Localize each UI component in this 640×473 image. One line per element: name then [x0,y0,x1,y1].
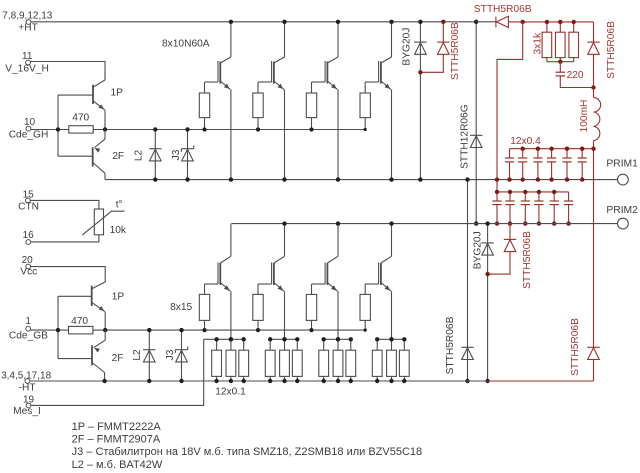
svg-text:8x15: 8x15 [170,302,192,313]
svg-text:10k: 10k [110,225,127,236]
svg-text:2F – FMMT2907A: 2F – FMMT2907A [72,434,161,446]
svg-text:15: 15 [23,190,35,201]
svg-text:PRIM1: PRIM1 [606,158,638,169]
svg-text:2F: 2F [112,353,124,364]
svg-text:1P: 1P [112,292,125,303]
svg-text:J3: J3 [171,149,182,160]
svg-text:1P – FMMT2222A: 1P – FMMT2222A [72,421,162,433]
svg-text:J3 – Стабилитрон на 18V м.б. т: J3 – Стабилитрон на 18V м.б. типа SMZ18,… [72,446,423,458]
svg-text:20: 20 [22,255,34,266]
svg-text:Vcc: Vcc [20,266,37,277]
svg-text:220: 220 [567,70,584,81]
svg-text:V_16V_H: V_16V_H [5,63,49,74]
svg-text:11: 11 [22,51,33,62]
svg-text:100mH: 100mH [579,100,590,133]
svg-text:J3: J3 [165,349,176,360]
svg-text:16: 16 [23,230,35,241]
svg-text:STTH5R06B: STTH5R06B [606,21,617,79]
svg-text:PRIM2: PRIM2 [606,205,638,216]
svg-text:1: 1 [25,316,31,327]
svg-text:CTN: CTN [18,201,39,212]
svg-text:STTH5R06B: STTH5R06B [570,318,581,376]
svg-text:3,4,5,17,18: 3,4,5,17,18 [1,370,51,381]
svg-text:8x10N60A: 8x10N60A [162,38,210,49]
svg-text:12x0.4: 12x0.4 [510,136,541,147]
svg-text:Cde_GB: Cde_GB [9,331,48,342]
svg-text:470: 470 [72,113,89,124]
svg-text:BYG20J: BYG20J [472,231,483,269]
svg-text:Cde_GH: Cde_GH [9,129,49,140]
svg-text:2F: 2F [112,151,124,162]
svg-text:STTH5R06B: STTH5R06B [450,22,461,80]
svg-text:L2 – м.б. BAT42W: L2 – м.б. BAT42W [72,459,163,471]
svg-text:12x0.1: 12x0.1 [215,387,246,398]
svg-text:+HT: +HT [18,22,38,33]
svg-text:Mes_I: Mes_I [13,406,41,417]
svg-text:L2: L2 [132,349,143,361]
svg-text:STTH5R06B: STTH5R06B [474,4,532,15]
svg-text:STTH12R06G: STTH12R06G [459,104,470,169]
svg-text:7,8,9,12,13: 7,8,9,12,13 [2,11,52,22]
svg-text:470: 470 [71,316,88,327]
svg-text:STTH5R06B: STTH5R06B [522,231,533,289]
svg-text:19: 19 [23,394,35,405]
svg-text:10: 10 [24,117,36,128]
svg-text:-HT: -HT [19,382,36,393]
svg-text:BYG20J: BYG20J [401,28,412,66]
svg-text:t°: t° [116,199,123,210]
svg-text:L2: L2 [134,150,145,162]
svg-text:1P: 1P [111,87,124,98]
svg-text:STTH5R06B: STTH5R06B [445,316,456,374]
